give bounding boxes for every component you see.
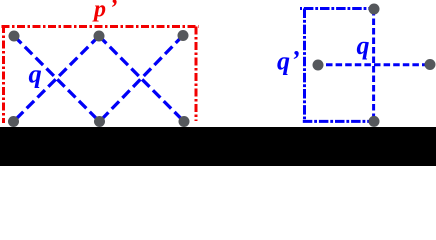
svg-text:q: q (29, 59, 42, 89)
svg-text:q: q (357, 31, 370, 60)
svg-text:p’: p’ (92, 0, 118, 23)
svg-text:q’: q’ (277, 46, 300, 76)
